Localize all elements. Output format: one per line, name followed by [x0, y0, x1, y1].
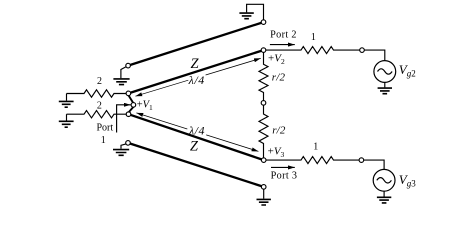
wire from lower-left terminal to ground	[121, 144, 126, 149]
svg-text:Port: Port	[96, 122, 113, 133]
terminal circle (upper TL ground left)	[126, 63, 131, 68]
svg-text:Port 3: Port 3	[271, 171, 298, 182]
wire from upper-left terminal to ground	[121, 67, 126, 79]
svg-text:Z: Z	[190, 138, 199, 154]
terminal circle (port1 bottom)	[126, 112, 131, 117]
Port 1 leader line with arrow	[117, 105, 131, 133]
resistor 2 (upper) with wires	[67, 90, 127, 97]
wire drop to ground (far left lower)	[66, 114, 68, 120]
resistor r/2 (upper) with wires	[259, 52, 268, 100]
label Port 3 with arrow	[271, 166, 295, 168]
ground (far left lower)	[59, 121, 74, 127]
svg-text:1: 1	[313, 141, 318, 152]
source Vg2	[374, 61, 396, 83]
svg-text:λ/4: λ/4	[188, 124, 205, 138]
ground (upper left, under TL terminal)	[113, 79, 129, 85]
svg-text:Port 2: Port 2	[270, 29, 297, 40]
ground (far left upper)	[59, 101, 74, 107]
ground (under Vg2)	[378, 88, 392, 94]
terminal circle (port2 node)	[261, 48, 266, 53]
ground (lower left, under TL terminal)	[113, 150, 129, 156]
transmission line Z (upper) signal conductor	[128, 50, 263, 93]
terminal circle (middle of r resistors)	[261, 101, 266, 106]
wire to source Vg2	[364, 50, 385, 61]
resistor 1 (lower)	[266, 157, 359, 164]
wire source to ground	[383, 191, 385, 196]
ground (bottom right)	[257, 199, 271, 205]
terminal circle (port1 middle)	[131, 103, 136, 108]
svg-text:Vg2: Vg2	[399, 62, 416, 79]
dimension line lambda/4 (lower)	[136, 113, 187, 129]
svg-text:Vg3: Vg3	[399, 172, 416, 189]
svg-text:+V2: +V2	[268, 52, 285, 66]
terminal circle (lower TL ground left)	[126, 141, 131, 146]
svg-text:+V1: +V1	[137, 100, 153, 113]
wire source to ground	[384, 82, 386, 87]
resistor 1 (upper)	[266, 47, 360, 54]
resistor r/2 (lower) with wires	[259, 105, 268, 158]
ground (top middle)	[239, 13, 253, 19]
terminal circle (lower right)	[359, 158, 364, 163]
ground (under Vg3)	[377, 197, 391, 203]
dimension line lambda/4 (upper)	[135, 80, 188, 96]
source Vg3	[373, 169, 395, 191]
terminal circle (port1 top)	[126, 91, 131, 96]
svg-text:1: 1	[101, 135, 106, 146]
wire drop to ground (far left upper)	[66, 94, 68, 101]
resistor 2 (lower) with wires	[67, 111, 127, 118]
svg-text:2: 2	[97, 76, 102, 87]
svg-text:1: 1	[311, 32, 316, 43]
wire from lower-right terminal to ground	[263, 189, 265, 199]
svg-text:r/2: r/2	[272, 124, 286, 136]
transmission line Z (lower) ground conductor	[128, 143, 264, 187]
svg-text:r/2: r/2	[272, 71, 286, 83]
svg-text:λ/4: λ/4	[188, 73, 205, 87]
svg-text:2: 2	[97, 100, 102, 111]
terminal circle (upper right)	[360, 48, 365, 53]
svg-text:+V3: +V3	[268, 146, 285, 160]
svg-text:Z: Z	[190, 56, 199, 72]
transmission line Z (lower) signal conductor	[129, 114, 264, 160]
port 1 junction arc	[129, 96, 134, 113]
terminal circle (port3 node)	[261, 158, 266, 163]
wire to source Vg3	[364, 160, 384, 169]
terminal circle (upper TL ground right)	[261, 20, 266, 25]
terminal circle (lower TL ground right)	[261, 185, 266, 190]
wire jog from top ground-conductor terminal to top ground	[247, 4, 264, 20]
transmission line Z (upper) ground conductor	[128, 22, 263, 66]
